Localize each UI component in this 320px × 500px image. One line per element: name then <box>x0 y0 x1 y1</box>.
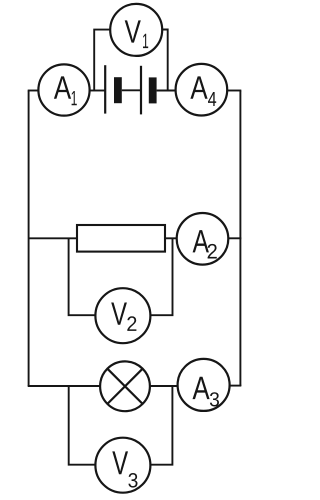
voltmeter V3 <box>95 438 150 493</box>
ammeter A4 <box>176 64 228 116</box>
wire V3 right branch <box>150 386 172 465</box>
battery <box>105 65 156 114</box>
ammeter A1 <box>38 64 89 115</box>
wire V1 right branch <box>162 30 168 91</box>
wire left rail to ammeter A1 <box>28 90 39 92</box>
battery cell 2 long plate <box>140 66 142 115</box>
wire A2 to right rail <box>228 237 241 239</box>
wire left rail to resistor R1 <box>29 237 77 239</box>
voltmeter V2 <box>95 288 150 343</box>
wire A3 to right rail <box>230 385 242 387</box>
wire left rail <box>28 91 30 387</box>
wire A4 to right rail <box>227 90 241 92</box>
wire battery to ammeter A4 <box>157 90 176 92</box>
wire right rail <box>239 91 241 387</box>
resistor R1 <box>77 225 165 252</box>
wire V1 left branch <box>94 30 110 91</box>
battery cell 2 short plate <box>149 77 157 103</box>
ammeter A2 <box>177 213 229 265</box>
wire V2 left branch <box>69 238 96 315</box>
wire between cells <box>122 89 141 91</box>
battery cell 1 long plate <box>104 65 106 113</box>
battery cell 1 short plate <box>114 77 122 103</box>
wire resistor to ammeter A2 <box>165 237 177 239</box>
ammeter A3 <box>178 359 230 411</box>
lamp L1 <box>100 361 150 411</box>
wire lamp to ammeter A3 <box>150 385 178 387</box>
wire A1 to battery <box>90 90 106 92</box>
wire left rail to lamp <box>28 385 101 387</box>
voltmeter V1 <box>110 4 162 56</box>
wire V2 right branch <box>150 238 172 315</box>
wire V3 left branch <box>69 386 96 465</box>
